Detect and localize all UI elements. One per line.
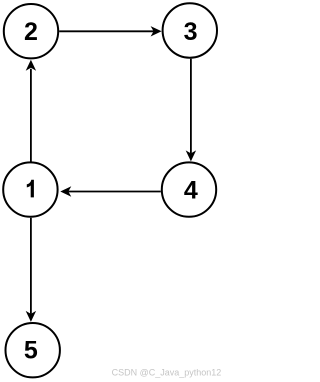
svg-text:4: 4 <box>184 176 198 204</box>
node 4 circle <box>162 162 216 216</box>
node 1 circle <box>3 162 57 216</box>
node 1 label (custom helvetica-style 1) <box>27 180 34 198</box>
svg-text:5: 5 <box>24 337 38 365</box>
wire edge 3->4 shaft <box>190 59 192 154</box>
arrowhead into node 5 <box>26 311 36 322</box>
wire edge 2->3 shaft <box>59 30 153 32</box>
wire edge 1->5 shaft <box>30 218 32 314</box>
node 2 circle <box>4 4 58 58</box>
arrowhead into node 4 <box>186 150 196 161</box>
arrowhead into node 1 <box>60 186 71 196</box>
svg-text:CSDN @C_Java_python12: CSDN @C_Java_python12 <box>112 368 222 378</box>
svg-text:3: 3 <box>184 18 198 46</box>
wire edge 4->1 shaft <box>68 191 161 193</box>
arrowhead into node 2 <box>26 60 36 71</box>
arrowhead into node 3 <box>151 26 162 36</box>
wire edge 1->2 shaft <box>30 69 32 162</box>
node 3 circle <box>163 3 217 57</box>
node 5 circle <box>6 323 60 377</box>
svg-text:2: 2 <box>24 18 38 46</box>
